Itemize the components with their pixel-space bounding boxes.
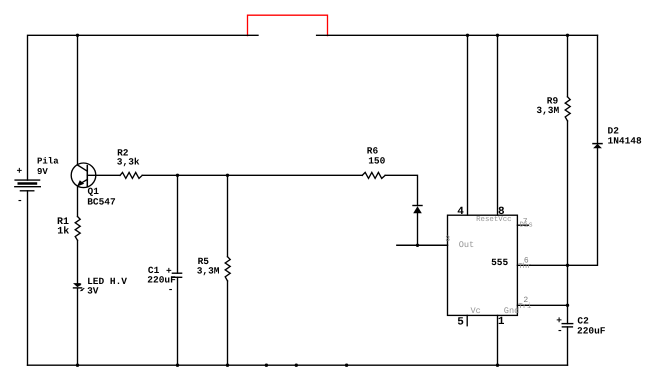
- svg-text:ResetVcc: ResetVcc: [476, 216, 511, 224]
- LED D3 triangle: [73, 283, 82, 287]
- svg-text:-: -: [168, 284, 174, 295]
- svg-text:4: 4: [457, 206, 464, 218]
- wire R1 to LED: [77, 240, 79, 283]
- wire pin 4 vertical: [467, 35, 469, 215]
- svg-text:3: 3: [445, 235, 450, 244]
- switch S1 (red actuator): [248, 15, 328, 35]
- node base line / C1: [176, 174, 179, 177]
- resistor R9: [565, 97, 570, 121]
- svg-text:1k: 1k: [57, 226, 69, 238]
- svg-text:Out: Out: [459, 240, 474, 250]
- svg-text:555: 555: [491, 257, 508, 268]
- node top rail / pin4: [466, 34, 469, 37]
- wire pin 7 stub: [517, 224, 528, 226]
- battery B1 plates: [15, 180, 41, 191]
- svg-text:220uF: 220uF: [577, 326, 606, 337]
- node top rail / R9: [566, 34, 569, 37]
- wire D2 to pin 6 line: [517, 148, 597, 265]
- svg-text:5: 5: [457, 316, 464, 328]
- diode D1 triangle: [413, 206, 422, 213]
- LED D3 light arrow slash: [79, 282, 84, 286]
- svg-text:Gnd: Gnd: [504, 306, 519, 316]
- node bottom rail / R5: [226, 364, 229, 367]
- wire pin 1 vertical: [497, 315, 499, 365]
- svg-text:Pila: Pila: [37, 157, 59, 167]
- IC U1 555 box: [448, 215, 518, 315]
- transistor Q1 emitter arrow: [77, 180, 84, 186]
- node bottom rail / pin1: [496, 364, 499, 367]
- svg-text:+: +: [17, 166, 23, 177]
- wire top rail right segment: [317, 34, 598, 36]
- svg-text:Dis: Dis: [520, 221, 533, 230]
- wire C1 bottom: [177, 277, 179, 365]
- node pin2 line / C2 column: [566, 304, 569, 307]
- wire top rail left segment: [28, 35, 259, 180]
- node pin6 line / R9 column: [566, 264, 569, 267]
- svg-text:-: -: [557, 325, 563, 336]
- diode D1 bar: [413, 205, 422, 207]
- wire C2 to bottom rail: [567, 327, 569, 365]
- resistor R5: [225, 257, 230, 281]
- wire top rail to D2: [597, 35, 599, 143]
- wire R5 bottom: [227, 281, 229, 365]
- node bottom rail / LED: [76, 364, 79, 367]
- wire C1 top: [177, 175, 179, 273]
- node base line / R5: [226, 174, 229, 177]
- resistor R1: [75, 217, 80, 241]
- wire R6 to D1 column: [385, 175, 417, 205]
- svg-text:3,3M: 3,3M: [536, 105, 559, 116]
- wire top rail to R9: [567, 35, 569, 97]
- node out line / D1: [416, 244, 419, 247]
- node bottom rail b: [295, 364, 298, 367]
- wire pin 8 vertical: [497, 35, 499, 215]
- svg-text:-: -: [17, 195, 23, 206]
- svg-text:9V: 9V: [37, 167, 48, 177]
- transistor Q1 base bar: [86, 166, 88, 187]
- LED D3 cathode bar: [73, 287, 83, 289]
- wire R2 to R6: [142, 174, 362, 176]
- node bottom rail a: [265, 364, 268, 367]
- wire pin 5 stub: [466, 315, 468, 325]
- svg-text:1: 1: [498, 316, 505, 328]
- diode D2 bar: [593, 143, 602, 145]
- svg-text:3,3k: 3,3k: [117, 156, 140, 167]
- wire base to R2: [87, 174, 120, 176]
- resistor R2: [120, 172, 142, 178]
- transistor Q1 emitter diagonal: [79, 179, 87, 184]
- wire battery negative to bottom rail: [27, 191, 29, 365]
- wire collector vertical: [77, 35, 79, 165]
- node bottom rail / C1: [176, 364, 179, 367]
- capacitor C2 plates: [562, 324, 573, 327]
- node top rail / pin8: [496, 34, 499, 37]
- node bottom rail c: [345, 364, 348, 367]
- wire bottom rail: [28, 364, 568, 366]
- svg-text:Tri: Tri: [518, 302, 532, 311]
- wire pin 2 line: [517, 304, 567, 306]
- transistor Q1 collector diagonal: [78, 165, 88, 171]
- wire R5 top: [227, 175, 229, 256]
- svg-text:3V: 3V: [87, 286, 99, 297]
- capacitor C1 plates: [172, 273, 181, 277]
- svg-text:Vc: Vc: [471, 306, 481, 316]
- node top rail / collector: [76, 34, 79, 37]
- svg-text:1N4148: 1N4148: [608, 135, 643, 146]
- LED D3 light arrow 2: [82, 288, 85, 290]
- wire emitter to R1: [77, 186, 79, 216]
- wire D1 to out node: [417, 214, 419, 246]
- svg-text:3,3M: 3,3M: [197, 266, 220, 277]
- diode D2 triangle: [593, 144, 602, 148]
- svg-text:150: 150: [368, 156, 385, 167]
- transistor Q1 circle: [71, 163, 96, 188]
- resistor R6: [362, 172, 385, 178]
- wire out pin 3: [397, 244, 448, 246]
- svg-text:Thr: Thr: [518, 262, 531, 271]
- wire R9 to C2: [567, 121, 569, 324]
- wire LED to bottom rail: [77, 289, 79, 366]
- svg-text:BC547: BC547: [87, 196, 116, 207]
